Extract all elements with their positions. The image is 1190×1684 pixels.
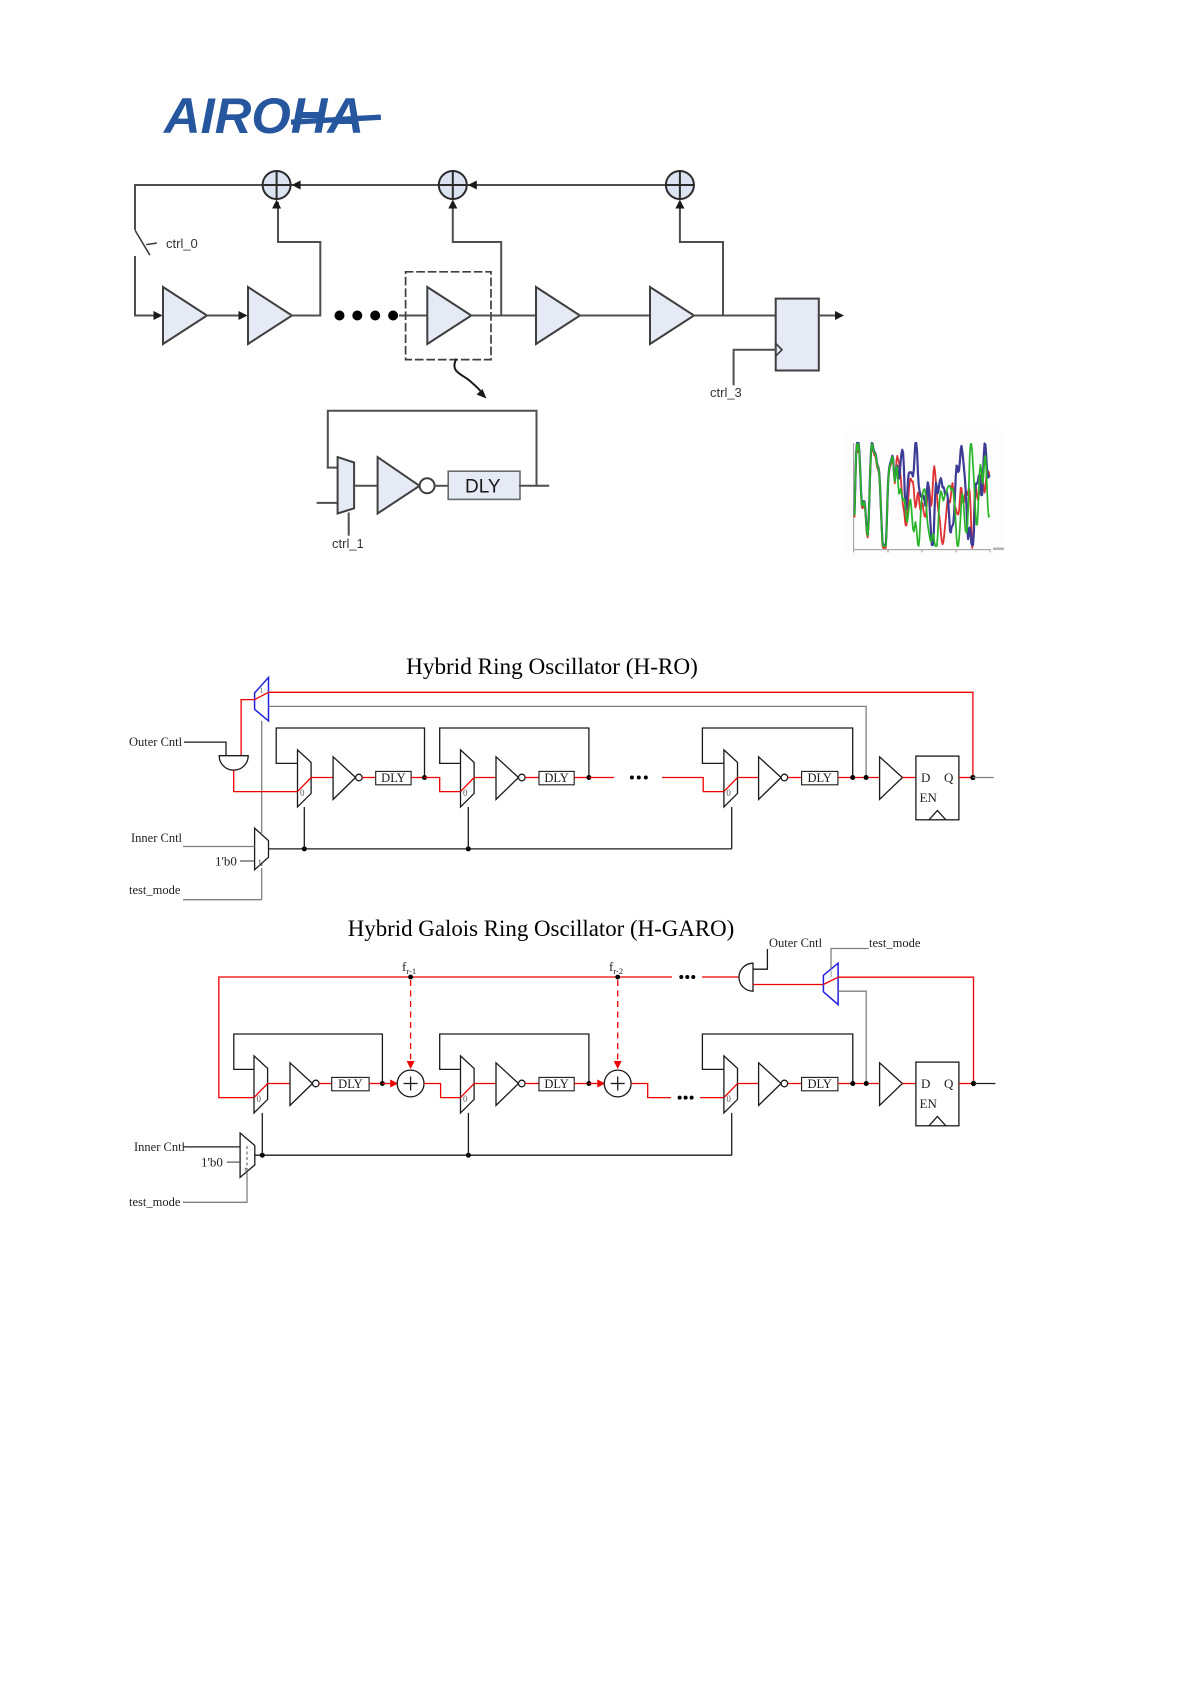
wire test_mode: [183, 899, 262, 901]
svg-text:0: 0: [463, 788, 468, 798]
xor gate X2: [439, 171, 467, 199]
svg-text:0: 0: [463, 1094, 468, 1104]
wire Q output: [959, 777, 973, 779]
wire input stub: [318, 502, 338, 504]
ellipsis top red: [679, 975, 683, 979]
inverter GARO2I: [496, 1063, 519, 1106]
svg-text:DLY: DLY: [808, 771, 832, 785]
wire red adder2 to ellipsis: [631, 1084, 671, 1098]
mux HRO2M: [461, 750, 475, 807]
inverter HRO2I: [496, 757, 519, 800]
inverter HRO3I: [759, 757, 782, 800]
svg-text:Inner Cntl: Inner Cntl: [131, 831, 183, 845]
wire inverter to DLY GARO3: [788, 1083, 802, 1085]
wire select line GARO: [255, 1154, 732, 1156]
svg-text:1: 1: [260, 686, 264, 695]
svg-text:D: D: [921, 1076, 930, 1091]
buffer B4: [536, 287, 580, 344]
buffer B3: [427, 287, 471, 344]
oscilloscope waveform image: [845, 429, 1004, 557]
svg-text:1'b0: 1'b0: [201, 1155, 223, 1170]
wire B4 to B5: [580, 315, 650, 317]
svg-text:AIROHA: AIROHA: [162, 88, 364, 144]
junction dot after DLY1: [411, 777, 424, 779]
flip-flop FF1: [776, 299, 819, 371]
wire Outer Cntl to AND: [753, 949, 767, 969]
wire B2 output with tap to XOR1: [278, 203, 320, 316]
feedback wire GARO3: [702, 1034, 852, 1084]
wire test_mode GARO bottom: [183, 1172, 247, 1202]
wire red arrow into adder2: [589, 1083, 598, 1085]
DLY box GARO2: [539, 1077, 574, 1090]
AND gate GARO-A1 (pointing left): [739, 963, 753, 991]
wire B3 to B4 with tap to XOR2: [471, 315, 536, 317]
top ring oscillator diagram: [135, 171, 844, 551]
wire mux to inverter: [354, 485, 378, 487]
wire DLY output: [520, 485, 548, 487]
wire gray mux input 2: [269, 706, 867, 777]
svg-text:DLY: DLY: [544, 771, 568, 785]
wire red AND to blue mux: [753, 984, 823, 986]
wire red AND out to stage1: [234, 770, 298, 791]
buffer HRO-B: [880, 757, 903, 800]
wire buffer to FF GARO: [902, 1083, 916, 1085]
svg-text:0: 0: [726, 788, 731, 798]
wire inverter to DLY HRO1: [362, 777, 376, 779]
tap dot f_r-1: [408, 975, 413, 980]
svg-text:0: 0: [300, 788, 305, 798]
wire XOR3 to XOR2: [467, 184, 666, 186]
svg-text:Q: Q: [944, 1076, 954, 1091]
ellipsis dots HRO: [630, 776, 634, 780]
svg-text:ctrl_3: ctrl_3: [710, 385, 742, 400]
wire Inner Cntl: [183, 846, 255, 848]
junction dot after DLY2: [574, 777, 589, 779]
dots ellipsis: [335, 311, 345, 321]
wire red mux out to AND: [241, 700, 255, 756]
wire red through mux GARO2: [461, 1084, 497, 1098]
wire red ring GARO left/top: [219, 977, 672, 1098]
wire left vertical to switch: [134, 185, 136, 229]
wire ctrl_3 to FF clock: [734, 350, 776, 385]
svg-text:1'b0: 1'b0: [215, 854, 237, 869]
DLY box GARO1: [332, 1077, 369, 1090]
wire 1'b0 GARO: [227, 1161, 240, 1163]
inner mux HRO-SM: [255, 828, 269, 870]
wire into mux top input: [328, 467, 338, 469]
buffer B2: [248, 287, 292, 344]
AND gate HRO-A1 (pointing down): [219, 756, 248, 771]
DLY box: [448, 471, 520, 499]
svg-text:Outer Cntl: Outer Cntl: [129, 735, 183, 749]
wire red to ellipsis: [589, 777, 614, 779]
tap dot f_r-2: [615, 975, 620, 980]
wire B5 to FF with tap to XOR3: [694, 315, 776, 317]
svg-text:ctrl_1: ctrl_1: [332, 536, 364, 551]
dashed red arrow f_r-2: [617, 980, 619, 1063]
wire red through mux GARO1: [254, 1084, 290, 1098]
switch ctrl_0: [136, 231, 150, 255]
wire test_mode select vertical: [261, 721, 263, 830]
svg-text:DLY: DLY: [808, 1077, 832, 1091]
svg-text:Hybrid Galois Ring Oscillator: Hybrid Galois Ring Oscillator (H-GARO): [348, 916, 735, 941]
wire inverter to DLY HRO3: [788, 777, 802, 779]
DLY box GARO3: [802, 1077, 838, 1090]
xor gate X3: [666, 171, 694, 199]
svg-text:D: D: [921, 770, 930, 785]
wire Outer Cntl to AND: [184, 742, 226, 756]
mux GARO3M: [724, 1056, 738, 1113]
AIROHA logo: [162, 88, 381, 144]
flip-flop HRO-FF: [916, 756, 959, 820]
svg-text:Hybrid Ring Oscillator (H-RO): Hybrid Ring Oscillator (H-RO): [406, 654, 698, 680]
wire red ellipsis to stage3: [700, 1097, 724, 1099]
svg-text:test_mode: test_mode: [129, 883, 181, 897]
mux HRO1M: [298, 750, 312, 807]
DLY box HRO1: [376, 771, 411, 784]
inner mux GARO-SM: [240, 1133, 255, 1177]
wire dots to B3: [400, 315, 427, 317]
wire XOR2 to XOR1: [291, 184, 439, 186]
wire inverter to DLY GARO2: [525, 1083, 539, 1085]
inverter GARO3I: [759, 1063, 782, 1106]
wire Q output GARO: [959, 1083, 974, 1085]
wire red adder1 to stage2: [424, 1084, 461, 1098]
mux GARO2M: [461, 1056, 475, 1113]
wire inverter to DLY GARO1: [319, 1083, 332, 1085]
wire switch to buffer B1 input: [135, 257, 160, 316]
junction dot after DLY1: [369, 1083, 382, 1085]
buffer B5: [650, 287, 694, 344]
svg-text:Outer Cntl: Outer Cntl: [769, 936, 823, 950]
wire ctrl_1 select: [348, 514, 350, 535]
svg-text:ctrl_0: ctrl_0: [166, 236, 198, 251]
svg-text:0: 0: [726, 1094, 731, 1104]
wire red stage1 to stage2: [425, 778, 461, 792]
svg-text:0: 0: [257, 1094, 262, 1104]
mux M_sub: [338, 457, 355, 513]
wire inverter to DLY: [435, 485, 449, 487]
svg-text:Q: Q: [944, 770, 954, 785]
wire red through mux HRO2: [461, 778, 497, 792]
svg-text:1: 1: [258, 858, 263, 868]
wire red through mux HRO1: [298, 778, 334, 792]
wire 1'b0: [240, 860, 255, 862]
leader squiggle from dashed box: [454, 360, 482, 393]
wire red inside blue mux: [823, 977, 838, 984]
svg-text:DLY: DLY: [544, 1077, 568, 1091]
adder GARO-P2: [604, 1070, 631, 1097]
wire test_mode to blue mux select: [831, 949, 869, 969]
wire select line to stage muxes: [269, 848, 732, 850]
svg-text:Inner Cntl: Inner Cntl: [134, 1140, 186, 1154]
junction dot after DLY2: [574, 1083, 589, 1085]
feedback wire HRO2: [440, 728, 589, 778]
feedback wire GARO1: [234, 1034, 383, 1084]
svg-text:fr-1: fr-1: [402, 959, 416, 976]
wire FF output: [819, 315, 839, 317]
svg-text:EN: EN: [920, 790, 938, 805]
flip-flop GARO-FF: [916, 1062, 959, 1126]
ellipsis dots GARO low: [678, 1096, 682, 1100]
svg-text:DLY: DLY: [381, 771, 405, 785]
buffer B1: [163, 287, 207, 344]
wire red through mux GARO3: [724, 1084, 759, 1098]
junction dots before buffer: [838, 777, 880, 779]
inverter HRO1I: [333, 757, 356, 800]
dashed box around B3: [406, 272, 491, 360]
wire red ellipsis to stage3: [662, 778, 724, 792]
wire gray mux to node: [838, 991, 866, 1083]
blue mux GARO-M0: [823, 963, 838, 1004]
svg-text:1: 1: [829, 970, 833, 979]
svg-text:test_mode: test_mode: [869, 936, 921, 950]
inverter GARO1I: [290, 1063, 313, 1106]
wire B1 to B2: [207, 315, 245, 317]
feedback wire HRO1: [276, 728, 424, 778]
wire red through mux HRO3: [724, 778, 759, 792]
wire red ring top HRO: [255, 692, 269, 699]
svg-text:EN: EN: [920, 1096, 938, 1111]
svg-text:DLY: DLY: [465, 477, 501, 498]
subcircuit feedback wire top: [328, 411, 537, 486]
inverter INV_sub: [378, 457, 420, 513]
svg-text:DLY: DLY: [338, 1077, 362, 1091]
mux GARO1M: [254, 1056, 268, 1113]
wire Inner Cntl GARO: [183, 1146, 240, 1148]
mux HRO3M: [724, 750, 738, 807]
wire red feedback from Q: [838, 977, 973, 1083]
feedback wire GARO2: [440, 1034, 589, 1084]
svg-text:fr-2: fr-2: [609, 959, 623, 976]
adder GARO-P1: [397, 1070, 424, 1097]
DLY box HRO3: [802, 771, 838, 784]
blue mux HRO-M0: [255, 677, 269, 721]
wire top-left feedback: [135, 184, 263, 186]
feedback wire HRO3: [702, 728, 852, 778]
buffer GARO-B: [880, 1063, 903, 1106]
svg-text:test_mode: test_mode: [129, 1195, 181, 1209]
wire red arrow into adder1: [382, 1083, 391, 1085]
junction dots before buffer GARO: [838, 1083, 880, 1085]
DLY box HRO2: [539, 771, 574, 784]
wire buffer to FF: [902, 777, 916, 779]
xor gate X1: [263, 171, 291, 199]
wire red top to AND: [702, 976, 739, 978]
wire inverter to DLY HRO2: [525, 777, 539, 779]
dashed red arrow f_r-1: [410, 980, 412, 1063]
